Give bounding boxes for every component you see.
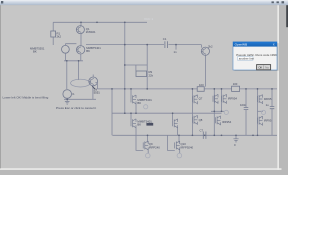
svg-text:OpenWB: OpenWB [235,43,248,47]
svg-text:100n: 100n [240,103,247,107]
svg-text:IRF954: IRF954 [222,120,232,124]
svg-text:Press Esc or click to cancel i: Press Esc or click to cancel it [56,106,96,110]
svg-text:22k: 22k [149,73,154,77]
svg-text:VCC 1: VCC 1 [144,17,153,21]
svg-text:Lower left OK! Middle is best: Lower left OK! Middle is best filling [3,95,49,99]
svg-text:C1: C1 [163,37,167,41]
svg-text:IRF95: IRF95 [264,118,272,122]
svg-text:IRFP240: IRFP240 [149,145,160,149]
svg-text:1n: 1n [174,50,178,54]
svg-text:2N5401: 2N5401 [86,30,96,34]
svg-text:Q8: Q8 [199,118,203,122]
svg-text:1u: 1u [266,103,270,107]
svg-text:100: 100 [199,83,204,87]
svg-text:2k2: 2k2 [57,35,62,39]
svg-text:another line: another line [239,56,254,60]
svg-text:IRFP9240: IRFP9240 [181,145,194,149]
svg-text:IRF95: IRF95 [264,97,272,101]
svg-text:2k2: 2k2 [208,44,213,48]
svg-text:BK: BK [33,50,37,54]
svg-text:OK: OK [258,66,262,70]
svg-text:Q7: Q7 [199,97,203,101]
svg-text:IRF954: IRF954 [228,97,238,101]
svg-text:BK: BK [86,49,90,53]
svg-text:BK: BK [137,123,141,127]
svg-text:5551: 5551 [94,90,101,94]
svg-text:BK: BK [137,101,141,105]
svg-text:No: No [265,66,269,70]
svg-text:C7: C7 [200,129,204,133]
svg-text:100: 100 [233,82,238,86]
